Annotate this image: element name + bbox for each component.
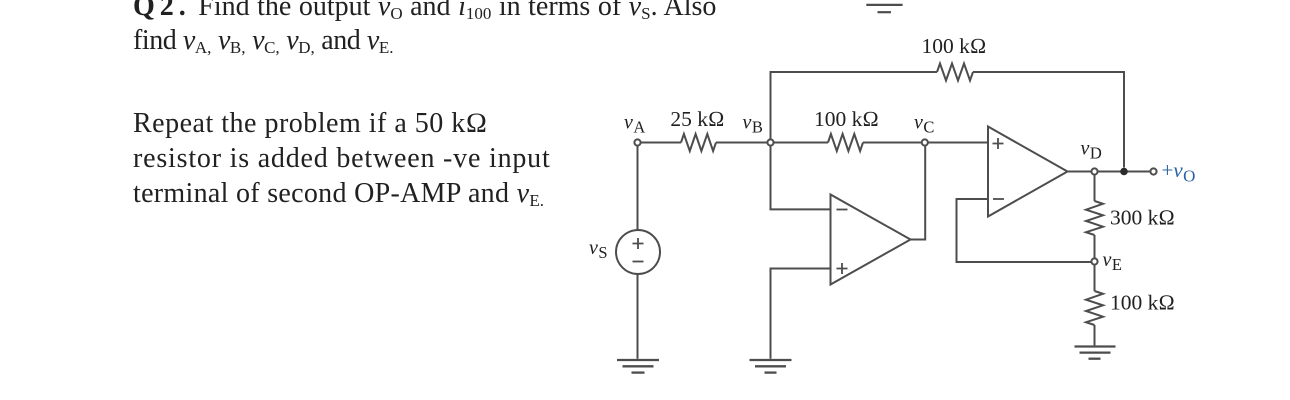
paragraph 1 line 2 [133, 27, 394, 58]
svg-text:100 kΩ: 100 kΩ [1110, 291, 1175, 315]
wire U1 noninverting input to ground [771, 269, 831, 359]
paragraph 2 line 3 [133, 180, 544, 211]
node vC [922, 139, 928, 145]
resistor 100 kOhm middle [828, 134, 863, 151]
wire vA to R 25k [641, 142, 681, 144]
source minus mark [633, 261, 644, 263]
terminal +vO [1150, 168, 1156, 174]
svg-text:25 kΩ: 25 kΩ [670, 107, 724, 131]
node vE [1091, 258, 1097, 264]
U2 minus mark [993, 198, 1004, 200]
svg-text:vA: vA [624, 112, 645, 137]
op-amp U2 [988, 127, 1068, 217]
svg-text:vD: vD [1081, 138, 1102, 163]
paragraph 2 line 2 [133, 145, 551, 173]
svg-text:vE: vE [1103, 249, 1122, 274]
wire R 25k to vB [716, 142, 767, 144]
node vD [1091, 168, 1097, 174]
U1 minus mark [837, 209, 848, 211]
svg-text:vB: vB [743, 112, 763, 137]
wire vD to output terminal [1098, 171, 1151, 173]
svg-text:100 kΩ: 100 kΩ [922, 34, 987, 58]
wire R 300k to vE [1094, 235, 1096, 258]
wire vC to U2 [928, 142, 988, 144]
paragraph 1 line 1 [133, 0, 716, 24]
U1 plus mark [837, 263, 848, 274]
wire vA down to source [637, 146, 639, 231]
ground (cropped, top) [866, 5, 902, 12]
ground right [1075, 347, 1116, 359]
resistor 300 kOhm [1086, 201, 1103, 235]
node vA [634, 139, 640, 145]
wire vB to R 100k [774, 142, 828, 144]
wire R 100k to vC [863, 142, 922, 144]
paragraph 2 line 1 [133, 110, 488, 138]
op-amp U1 [831, 195, 911, 285]
junction dot [1120, 168, 1128, 176]
wire source to ground [637, 274, 639, 359]
ground under U1 [750, 360, 792, 373]
svg-text:100 kΩ: 100 kΩ [814, 107, 879, 131]
wire U1 output up to vC [911, 146, 926, 240]
source vs [616, 230, 660, 274]
svg-text:vC: vC [914, 112, 934, 137]
resistor 100 kOhm feedback [937, 64, 973, 81]
wire feedback to output junction [973, 72, 1124, 168]
svg-text:vS: vS [589, 237, 608, 262]
wire vB down to inverting input [771, 146, 831, 210]
wire R 100k bottom to ground [1094, 325, 1096, 345]
ground under source [617, 360, 659, 373]
wire U2 output to vD [1068, 171, 1092, 173]
svg-text:300 kΩ: 300 kΩ [1110, 206, 1175, 230]
wire vD down to R 300k [1094, 175, 1096, 201]
svg-text:+vO: +vO [1162, 158, 1196, 186]
resistor 100 kOhm bottom [1086, 291, 1103, 325]
wire U2 inverting input loop to vE [957, 199, 1092, 262]
source plus mark [633, 238, 644, 249]
wire vE to R 100k bottom [1094, 265, 1096, 291]
U2 plus mark [993, 138, 1004, 149]
node vB [767, 139, 773, 145]
resistor 25 kOhm [681, 134, 716, 151]
wire vB up to feedback [771, 72, 938, 139]
